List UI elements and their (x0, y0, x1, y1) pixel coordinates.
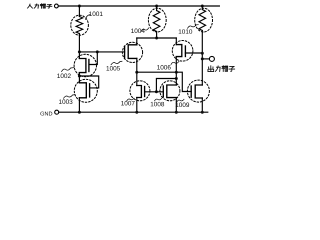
wire node A to 1005 gate (79, 51, 124, 53)
wire 1001 top lead (78, 6, 80, 17)
transistor Q1009 (195, 85, 202, 98)
wire R1010 bottom to output node (201, 31, 203, 86)
leader 1008 (155, 98, 162, 101)
wire 1009 source to rail (201, 98, 203, 112)
wire 1003 gate loop (79, 76, 98, 88)
transistor Q1003 dashed circle (74, 79, 97, 102)
label 1003 (59, 99, 72, 104)
wire 1005 source down to 1007 (136, 58, 138, 85)
leader 1006 (171, 61, 179, 64)
resistor R1004 (153, 11, 160, 32)
wire 1007 source to rail (136, 98, 138, 113)
transistor Q1002 dashed circle (74, 54, 96, 76)
wire 1002 gate drop (89, 52, 97, 65)
wire 1001 bottom to node A (78, 34, 80, 59)
resistor R1001 (76, 17, 83, 34)
wire node C horizontal (137, 37, 177, 39)
wire 1006 drain down from node C (175, 38, 177, 45)
leader 1007 (127, 98, 134, 101)
wire 1009 gate path (176, 72, 191, 91)
label 1007 (121, 101, 134, 106)
resistor R1001 dashed ellipse (71, 15, 89, 35)
leader 1010 (188, 25, 199, 29)
wire GND rail (59, 111, 208, 113)
label 1004 (131, 29, 145, 34)
output branch junction (201, 57, 204, 60)
leader 1009 (177, 99, 184, 102)
node top-1004 junction (155, 5, 158, 8)
node 1007-1008 gate junction (155, 90, 158, 93)
transistor Q1009 dashed circle (187, 80, 209, 102)
transistor Q1006 dashed circle (172, 41, 193, 62)
input terminal circle (55, 4, 59, 8)
wire node D horizontal (137, 71, 177, 73)
label 1010 (179, 29, 193, 34)
wire R1010 top lead (201, 6, 203, 10)
transistor Q1007 (137, 86, 142, 98)
GND rail junction 1003 (78, 111, 81, 114)
wire 1008 source to rail (175, 98, 177, 113)
node B junction (96, 50, 99, 53)
GND rail junction 1008 (175, 111, 178, 114)
wire output stub (202, 58, 209, 60)
output terminal 出力端子 (208, 66, 235, 72)
output terminal circle (209, 56, 214, 61)
leader 1004 (141, 28, 149, 32)
node D junction (135, 71, 138, 74)
GND rail junction 1009 (201, 111, 204, 114)
node top-1001 junction (78, 5, 81, 8)
GND terminal circle (55, 110, 59, 114)
wire 1002 to 1003 (78, 73, 80, 83)
transistor Q1007 gate plate (144, 87, 146, 97)
label 1008 (151, 102, 164, 107)
transistor Q1005 (128, 45, 137, 59)
wire R1004 bottom lead (156, 32, 158, 39)
transistor Q1005 gate plate (124, 46, 126, 58)
node 1002-1003 junction (78, 75, 81, 78)
node gate-bus junction (175, 77, 178, 80)
resistor R1010 (199, 10, 206, 31)
node top-1010 junction (201, 5, 204, 8)
input terminal 入力端子 (28, 4, 52, 8)
transistor Q1006 (176, 45, 182, 57)
transistor Q1002 gate plate (88, 60, 90, 72)
wire 1006 source down to 1008 (175, 57, 177, 85)
wire top rail (58, 5, 219, 7)
label 1002 (57, 74, 70, 79)
transistor Q1005 dashed circle (122, 42, 142, 62)
wire R1004 top lead (156, 6, 158, 11)
wire 1007 gate to 1008 gate (145, 91, 164, 93)
label 1005 (106, 66, 119, 71)
leader 1003 (64, 95, 76, 99)
wire 1003 source to GND rail (78, 98, 80, 112)
transistor Q1008 (167, 85, 177, 98)
node 1006-1008 cross junction (175, 71, 178, 74)
GND rail junction 1007 (135, 111, 138, 114)
leader 1001 (86, 15, 90, 20)
wire 1006 gate lead to output node (185, 52, 202, 54)
transistor Q1007 dashed circle (130, 81, 150, 101)
label 1006 (157, 65, 170, 70)
transistor Q1008 gate plate (162, 86, 164, 97)
transistor Q1006 gate plate (184, 46, 186, 57)
transistor Q1009 gate plate (190, 86, 192, 97)
label 1001 (89, 12, 102, 17)
label 1009 (176, 103, 189, 108)
GND terminal text (40, 112, 52, 116)
leader 1002 (62, 68, 75, 72)
output node junction (201, 52, 204, 55)
leader 1005 (111, 61, 122, 65)
transistor Q1003 gate plate (89, 84, 91, 97)
resistor R1010 dashed ellipse (195, 8, 213, 32)
transistor Q1003 (79, 83, 86, 98)
transistor Q1002 (79, 59, 86, 73)
node A junction (78, 50, 81, 53)
node C junction (155, 37, 158, 40)
transistor Q1008 dashed circle (160, 81, 180, 101)
resistor R1004 dashed ellipse (148, 8, 166, 32)
wire 1005 drain up (136, 38, 138, 45)
wire gate bus to 1007/1008 gates (156, 79, 176, 92)
